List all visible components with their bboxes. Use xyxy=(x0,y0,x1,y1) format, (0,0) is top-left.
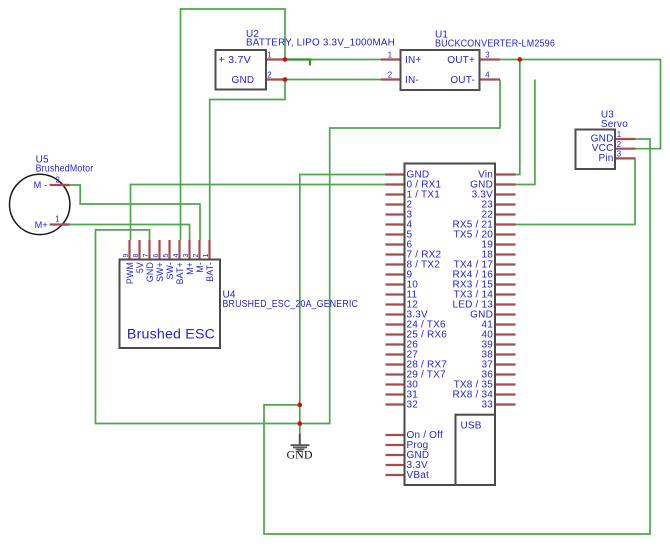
svg-text:BAT-: BAT- xyxy=(205,262,215,282)
svg-text:3: 3 xyxy=(485,51,490,60)
svg-text:2: 2 xyxy=(56,176,61,185)
svg-text:2: 2 xyxy=(267,71,272,80)
svg-text:M+: M+ xyxy=(35,220,48,230)
svg-text:1: 1 xyxy=(617,130,622,139)
svg-text:Brushed ESC: Brushed ESC xyxy=(127,327,215,343)
svg-text:IN+: IN+ xyxy=(405,55,421,66)
svg-text:USB: USB xyxy=(461,421,482,432)
svg-text:5V: 5V xyxy=(135,262,145,273)
svg-text:Servo: Servo xyxy=(601,119,628,130)
svg-text:BAT+: BAT+ xyxy=(175,262,185,284)
svg-text:2: 2 xyxy=(388,71,393,80)
svg-text:BUCKCONVERTER-LM2596: BUCKCONVERTER-LM2596 xyxy=(435,39,555,50)
svg-text:VBat: VBat xyxy=(407,470,430,481)
svg-text:M+: M+ xyxy=(185,262,195,275)
svg-text:M -: M - xyxy=(34,180,48,190)
svg-text:M-: M- xyxy=(195,262,205,273)
svg-text:+ 3.7V: + 3.7V xyxy=(219,55,252,66)
svg-text:2: 2 xyxy=(191,254,200,258)
svg-text:IN-: IN- xyxy=(405,75,419,86)
svg-text:PWM: PWM xyxy=(125,262,135,284)
svg-text:4: 4 xyxy=(171,254,180,258)
svg-text:BrushedMotor: BrushedMotor xyxy=(36,163,94,174)
svg-text:1: 1 xyxy=(55,215,60,224)
svg-text:GND: GND xyxy=(287,448,313,462)
svg-text:SW+: SW+ xyxy=(155,262,165,282)
svg-text:4: 4 xyxy=(485,71,490,80)
svg-text:2: 2 xyxy=(617,140,622,149)
svg-text:1: 1 xyxy=(388,51,393,60)
svg-text:3: 3 xyxy=(181,254,190,258)
svg-text:GND: GND xyxy=(232,75,255,86)
svg-text:GND: GND xyxy=(145,262,155,282)
svg-text:3: 3 xyxy=(617,150,622,159)
svg-text:Pin: Pin xyxy=(598,153,613,164)
svg-text:9: 9 xyxy=(121,254,130,258)
svg-text:SW-: SW- xyxy=(165,262,175,280)
svg-text:BRUSHED_ESC_20A_GENERIC: BRUSHED_ESC_20A_GENERIC xyxy=(223,299,359,310)
svg-text:32: 32 xyxy=(407,400,419,411)
svg-text:8: 8 xyxy=(131,254,140,258)
svg-text:6: 6 xyxy=(151,254,160,258)
svg-text:33: 33 xyxy=(481,400,493,411)
svg-text:1: 1 xyxy=(267,51,272,60)
svg-text:OUT+: OUT+ xyxy=(447,55,475,66)
svg-text:OUT-: OUT- xyxy=(450,75,475,86)
svg-text:BATTERY, LIPO 3.3V_1000MAH: BATTERY, LIPO 3.3V_1000MAH xyxy=(246,38,395,49)
svg-text:1: 1 xyxy=(201,254,210,258)
svg-text:7: 7 xyxy=(141,254,150,258)
svg-text:5: 5 xyxy=(161,254,170,258)
